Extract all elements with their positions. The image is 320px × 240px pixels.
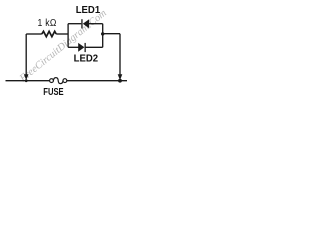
wire: left junction vertical [67, 24, 69, 48]
LED1 diode (pointing left) [81, 19, 89, 28]
wire: top branch right segment [89, 23, 103, 25]
LED2 diode (pointing right) [78, 43, 86, 52]
wire: top main horizontal (left corner to resistor) [26, 33, 42, 35]
arrowhead left (current into rail) [24, 74, 29, 80]
wire: tap from node to right [103, 33, 120, 35]
svg-text:LED1: LED1 [76, 5, 101, 16]
fuse F1 symbol: left terminal circle [50, 79, 54, 83]
wire: right junction vertical [102, 24, 104, 48]
junction dot bottom left rail [25, 79, 28, 82]
wire: bottom rail left of fuse [6, 80, 50, 82]
wire: resistor to left junction [56, 33, 68, 35]
svg-text:FUSE: FUSE [43, 86, 63, 97]
svg-text:LED2: LED2 [74, 53, 99, 64]
wire: bottom branch right segment [86, 46, 103, 48]
wire: top branch left segment [68, 23, 81, 25]
fuse right terminal circle [63, 79, 67, 83]
wire: bottom branch left segment [68, 46, 78, 48]
wire: far right vertical down [119, 34, 121, 75]
svg-text:1 kΩ: 1 kΩ [38, 18, 57, 30]
wire: left vertical down from corner [25, 34, 27, 75]
fuse wave element [53, 78, 63, 84]
junction dot mid right node [101, 32, 104, 35]
wire: bottom rail right of fuse [67, 80, 127, 82]
junction dot bottom right rail [118, 79, 122, 83]
resistor R1 1 kΩ zigzag [42, 31, 56, 36]
arrowhead right (current into rail) [118, 74, 123, 80]
